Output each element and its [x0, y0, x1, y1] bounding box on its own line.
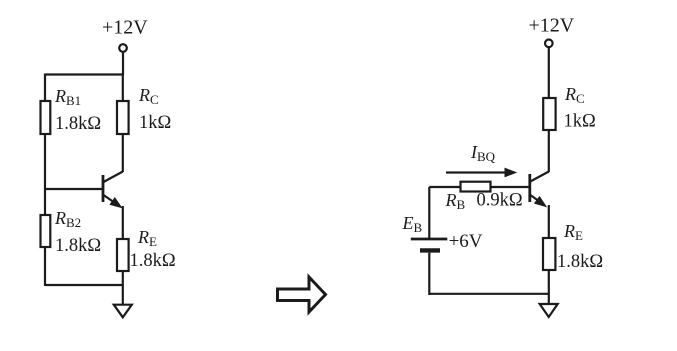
transistor Q2 emitter arrowhead — [535, 197, 546, 207]
transistor Q1 emitter arrowhead — [110, 198, 121, 208]
resistor RE (right) — [543, 238, 555, 270]
wire RE bottom (left) — [122, 271, 124, 305]
arrow implies — [278, 277, 326, 312]
svg-text:1.8kΩ: 1.8kΩ — [130, 251, 176, 271]
current arrow IBQ — [446, 171, 507, 173]
transistor Q2 collector diagonal — [530, 172, 549, 182]
wire base (right) — [429, 186, 530, 188]
wire EB bottom — [428, 253, 430, 295]
transistor Q1 base bar — [102, 175, 105, 202]
wire EB top (right) — [428, 187, 430, 238]
resistor RC (right) — [543, 98, 555, 130]
wire bottom rail (right) — [429, 293, 549, 295]
wire collector (left) — [122, 134, 124, 172]
wire left rail middle — [44, 134, 46, 215]
svg-text:+12V: +12V — [102, 17, 148, 39]
wire bottom rail (left) — [45, 284, 123, 286]
svg-text:+6V: +6V — [449, 231, 483, 252]
wire collector (right) — [548, 130, 550, 172]
resistor RE (left) — [117, 239, 129, 271]
battery EB long plate — [411, 238, 448, 241]
battery EB short plate — [420, 248, 440, 252]
svg-text:1.8kΩ: 1.8kΩ — [557, 252, 603, 272]
wire terminal to top rail (left) — [122, 52, 124, 75]
transistor Q1 emitter diagonal — [104, 195, 119, 205]
wire terminal to RC (right) — [548, 47, 550, 98]
wire left rail lower — [44, 247, 46, 286]
transistor Q1 collector diagonal — [104, 172, 123, 183]
svg-text:1kΩ: 1kΩ — [139, 113, 171, 133]
svg-text:1.8kΩ: 1.8kΩ — [55, 114, 101, 134]
wire left rail upper — [44, 74, 46, 102]
wire emitter vertical (right) — [548, 205, 550, 238]
svg-text:0.9kΩ: 0.9kΩ — [477, 191, 523, 211]
resistor RB1 — [41, 101, 51, 134]
transistor Q2 base bar — [528, 174, 531, 202]
wire right branch upper (left circuit) — [122, 74, 124, 101]
wire emitter vertical (left) — [122, 206, 124, 239]
svg-text:1.8kΩ: 1.8kΩ — [55, 236, 101, 256]
node +12V terminal circle (right) — [545, 40, 553, 48]
svg-text:1kΩ: 1kΩ — [564, 112, 596, 132]
svg-text:+12V: +12V — [529, 15, 575, 37]
resistor RB2 — [41, 215, 51, 247]
wire RE bottom (right) — [548, 270, 550, 303]
node +12V terminal circle (left) — [119, 44, 127, 52]
ground (left) — [114, 305, 132, 318]
resistor RC (left) — [117, 101, 129, 134]
transistor Q2 emitter diagonal — [530, 195, 543, 204]
transistor Q1 base wire — [45, 188, 103, 190]
resistor RB (horizontal) — [461, 182, 491, 192]
wire top rail (left) — [45, 73, 123, 75]
ground (right) — [540, 304, 558, 317]
